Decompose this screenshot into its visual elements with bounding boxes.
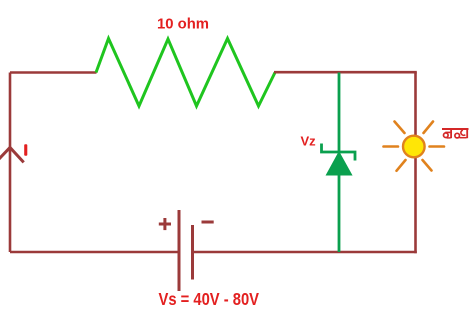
wire: bottom right segment	[193, 251, 417, 254]
wire: zener branch top (green)	[338, 73, 341, 152]
minus sign	[202, 221, 214, 224]
label bulb (Devanagari)	[442, 128, 469, 138]
wire: right vertical	[414, 72, 417, 253]
value label 10 ohm	[157, 17, 209, 33]
zener diode Vz	[322, 144, 356, 175]
resistor R1	[96, 39, 275, 107]
lamp (bulb) body	[403, 136, 425, 158]
wire: top right segment	[274, 71, 417, 74]
svg-text:Vz: Vz	[301, 133, 317, 148]
wire: bottom left segment	[10, 251, 179, 254]
battery Vs: negative short plate	[191, 225, 194, 280]
lamp (bulb) rays	[384, 122, 445, 171]
battery Vs: positive long plate	[178, 210, 181, 291]
value label Vs = 40V - 80V	[159, 289, 260, 309]
wire: top left segment	[10, 71, 97, 74]
current arrow I	[0, 148, 24, 163]
wire: zener branch bottom (green)	[338, 174, 341, 252]
wire: left vertical	[9, 73, 12, 253]
plus sign	[159, 218, 171, 230]
svg-text:10 ohm: 10 ohm	[157, 17, 209, 33]
svg-text:Vs = 40V - 80V: Vs = 40V - 80V	[159, 289, 260, 309]
label I	[24, 144, 27, 155]
label Vz	[301, 133, 317, 148]
